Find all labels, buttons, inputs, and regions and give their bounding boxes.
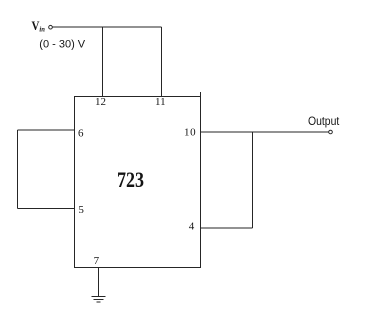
svg-text:6: 6	[78, 127, 84, 139]
svg-text:5: 5	[78, 204, 84, 216]
svg-text:Output: Output	[308, 115, 340, 128]
svg-text:723: 723	[117, 168, 144, 192]
svg-text:(0 - 30) V: (0 - 30) V	[39, 38, 86, 50]
svg-text:10: 10	[184, 127, 196, 139]
svg-text:4: 4	[189, 221, 195, 233]
svg-text:7: 7	[94, 255, 100, 267]
svg-text:11: 11	[155, 96, 166, 108]
svg-text:12: 12	[95, 96, 106, 108]
